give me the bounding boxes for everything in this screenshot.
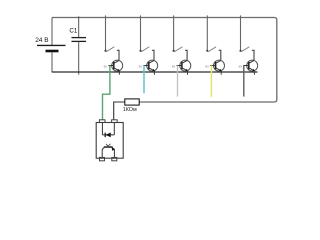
svg-text:вх: вх	[104, 65, 108, 69]
svg-text:вх: вх	[172, 65, 176, 69]
svg-text:вх: вх	[205, 65, 209, 69]
svg-text:вх: вх	[239, 65, 243, 69]
svg-text:1КОм: 1КОм	[123, 107, 137, 113]
svg-text:24 В: 24 В	[35, 37, 48, 44]
svg-text:вх: вх	[139, 65, 143, 69]
svg-text:C1: C1	[69, 28, 77, 35]
